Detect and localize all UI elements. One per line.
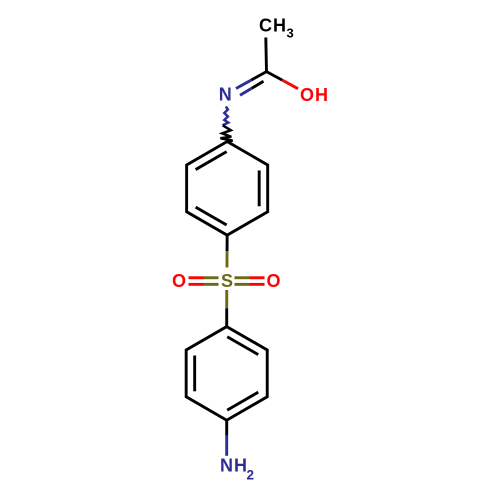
bond ring1-S (olive half) <box>225 251 228 267</box>
double bond S=O left upper line (olive half) <box>204 276 219 279</box>
double bond S=O left upper line (red half) <box>189 276 204 279</box>
svg-text:OH: OH <box>300 85 329 105</box>
double bond S=O right lower line (olive half) <box>235 283 250 286</box>
svg-text:S: S <box>221 271 233 291</box>
double bond S=O left lower line (olive half) <box>204 283 219 286</box>
bond ring1-S (black half) <box>226 235 229 251</box>
ring1 double bond inner line top-left edge <box>196 152 227 170</box>
bond C-OH (black half) <box>267 72 283 81</box>
svg-text:NH: NH <box>220 456 248 476</box>
methyl label CH3 <box>259 16 294 41</box>
double bond S=O right upper line (red half) <box>250 276 265 279</box>
double bond C=N inner line (black half) <box>252 81 264 88</box>
double bond S=O right upper line (olive half) <box>235 276 250 279</box>
ring2 double bond inner line bottom-right edge <box>227 392 258 410</box>
double bond C=N main line (black half) <box>251 72 266 80</box>
double bond C=N inner line (blue half) <box>240 88 252 95</box>
ring1 double bond inner line right edge <box>258 170 261 206</box>
wire CH3-C bond <box>264 38 268 72</box>
svg-text:3: 3 <box>287 25 294 40</box>
svg-text:N: N <box>219 85 232 105</box>
svg-text:CH: CH <box>259 16 287 36</box>
svg-text:2: 2 <box>247 467 255 482</box>
bond ring2-NH2 (black half) <box>225 420 228 436</box>
svg-text:O: O <box>172 271 186 291</box>
benzene ring 2 outline <box>186 327 267 421</box>
ring2 double bond inner line left edge <box>193 356 196 392</box>
bond S-ring2 (olive half) <box>225 290 228 308</box>
ring1 double bond inner line bottom-left edge <box>196 207 227 225</box>
bond S-ring2 (black half) <box>225 308 228 326</box>
benzene ring 1 outline <box>187 142 268 236</box>
bond C-OH (red half) <box>282 80 298 89</box>
amine label NH2 <box>220 456 254 483</box>
wavy bond N-ring1 (black half) <box>220 125 232 142</box>
double bond S=O right lower line (red half) <box>250 283 265 286</box>
double bond S=O left lower line (red half) <box>189 283 204 286</box>
bond ring2-NH2 (blue half) <box>225 436 228 456</box>
svg-text:O: O <box>267 271 281 291</box>
wavy bond N-ring1 (blue half) <box>223 107 229 126</box>
double bond C=N main line (blue half) <box>236 80 251 88</box>
ring2 double bond inner line top-right edge <box>227 337 258 355</box>
